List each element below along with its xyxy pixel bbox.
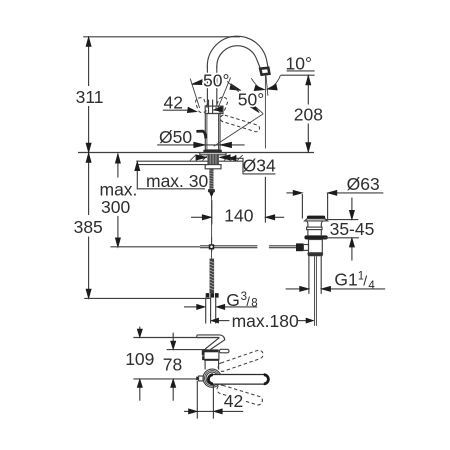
drain plug top [307, 216, 325, 219]
lever rod [208, 100, 210, 114]
rod tip [210, 192, 214, 196]
svg-text:8: 8 [251, 298, 257, 310]
311 top arrowhead [86, 37, 91, 46]
supply connection reference line [110, 246, 199, 248]
top view mid ring [205, 371, 220, 386]
deck hatching left [190, 155, 207, 161]
drain neck lower [308, 230, 321, 236]
top view: axis reference line [133, 378, 196, 380]
lever stroke leg upper [227, 81, 263, 113]
dim 311 vertical line [88, 37, 90, 152]
42 leader line [163, 109, 191, 111]
braided supply hose [210, 259, 215, 293]
top view spout arm left edge [205, 338, 219, 349]
d63 right arrowhead [328, 190, 337, 195]
208 top arrowhead [306, 76, 311, 85]
35-45 bottom arrow [351, 243, 353, 261]
drain tailpipe [309, 256, 321, 294]
drain body [309, 240, 323, 253]
svg-text:max.180: max.180 [232, 311, 299, 331]
42 dim line [197, 410, 213, 412]
drain seal ring [304, 235, 327, 239]
dim 385 vertical line [88, 153, 90, 298]
escutcheon flange [200, 153, 226, 155]
d50 right arrowhead [220, 142, 231, 147]
max30 arrowhead [135, 162, 140, 171]
10deg wedge tilted leg [266, 75, 268, 96]
140 left arrow [191, 216, 207, 218]
svg-text:300: 300 [101, 197, 130, 217]
drain side connector collar [303, 245, 308, 251]
dim 109 bottom arrow [139, 384, 141, 401]
top view: second reference line [167, 349, 207, 351]
50deg right arrowhead [230, 84, 241, 91]
dim line d50 [157, 144, 244, 146]
dim 42 right extension [212, 385, 214, 419]
top view escutcheon rear dark edge [205, 359, 219, 361]
max300 top arrowhead [115, 154, 120, 163]
top view spout bar left cap [197, 335, 220, 338]
deck hatching right [224, 155, 243, 161]
deck bottom line [136, 160, 243, 162]
svg-text:42: 42 [224, 391, 243, 411]
svg-text:/: / [363, 273, 367, 289]
drain flange [305, 219, 328, 221]
rod lower block [208, 189, 215, 192]
42 leader arrowhead [187, 107, 196, 112]
35-45 top arrow [351, 198, 353, 215]
10deg wedge vertical leg / outlet axis extension [264, 75, 266, 149]
dim 140 extension line below deck [264, 177, 266, 223]
spout left inner tube line [216, 67, 218, 107]
svg-text:42: 42 [164, 93, 183, 113]
top view inner circle [206, 372, 218, 384]
spout outlet tube right line [266, 58, 268, 68]
385 bottom arrowhead [86, 289, 91, 298]
max180 left arrow [216, 320, 229, 322]
threaded rod [209, 169, 213, 191]
208 bottom arrowhead [306, 143, 311, 152]
drain side connector black [296, 243, 303, 251]
svg-text:Ø63: Ø63 [347, 174, 380, 194]
top view escutcheon front dark edge [204, 350, 219, 353]
42 right arrow [218, 410, 243, 412]
mounting nut [205, 165, 221, 169]
spout hook detail [196, 131, 205, 138]
dashed lever down-swing [216, 384, 263, 406]
svg-text:10°: 10° [286, 53, 312, 73]
lever stroke leg lower [214, 114, 263, 146]
140 right arrow [270, 216, 284, 218]
axis centerline below rod [211, 197, 213, 237]
svg-text:385: 385 [74, 217, 103, 237]
svg-text:Ø50: Ø50 [159, 127, 192, 147]
d34 arrow left [196, 155, 207, 160]
dashed lever up-swing [217, 349, 264, 372]
svg-text:109: 109 [125, 349, 154, 369]
drain: d63 left extension [301, 194, 303, 219]
35-45 upper extension [325, 219, 359, 221]
top view: upper reference line [133, 337, 219, 339]
dim 42 left extension [196, 381, 198, 419]
dashed lever down position [220, 114, 261, 132]
385 top arrowhead [86, 153, 91, 162]
deck top line [78, 152, 314, 154]
spout arc inner [217, 46, 256, 68]
42 left arrow [184, 410, 193, 412]
d63 dim line [333, 192, 384, 194]
G3/8 dim line left [184, 306, 197, 308]
10deg reference line [281, 74, 315, 76]
d34 arrow right [219, 155, 230, 160]
svg-text:4: 4 [368, 280, 375, 292]
svg-text:50°: 50° [203, 71, 229, 91]
drain neck [308, 223, 321, 227]
svg-text:35-45: 35-45 [330, 219, 375, 239]
drain bottom nut [307, 253, 323, 256]
body inner wall lines [206, 114, 208, 150]
d34 leader arrowhead [229, 156, 236, 161]
rod cross vertical [211, 237, 213, 252]
385 bottom reference line [84, 297, 210, 299]
10deg arc left [251, 78, 261, 89]
d34 bracket underline [235, 158, 276, 174]
top view lever tip oval [219, 349, 229, 353]
50deg left leg [190, 79, 199, 109]
lever stroke arrowhead [250, 104, 259, 113]
dim 208 vertical line [307, 76, 309, 152]
dim max300 vertical line [117, 154, 119, 247]
top view escutcheon [204, 350, 219, 360]
spout outlet tube left line [256, 58, 260, 69]
drain: d63 right extension [327, 193, 329, 219]
hose tails G3/8 [205, 298, 207, 324]
svg-text:140: 140 [224, 206, 253, 226]
dashed knob right position [215, 96, 229, 113]
42 right arrowhead [214, 106, 223, 111]
dim 140 faucet axis extension [211, 200, 213, 224]
G1 1/4 dim line right / underline [326, 288, 385, 290]
spout left outer tube line [206, 67, 208, 107]
lever capsule bold left cap [208, 375, 213, 384]
hose nut [206, 293, 210, 298]
pop-up rod right segment [269, 246, 296, 248]
35-45 lower extension [324, 237, 359, 239]
dim 78 bottom arrow [172, 384, 174, 401]
50deg right leg [218, 77, 231, 108]
drain collar [307, 227, 322, 230]
dashed knob left position [194, 96, 208, 113]
svg-text:208: 208 [294, 105, 323, 125]
spout arc outer [207, 36, 266, 67]
svg-text:G1: G1 [334, 270, 357, 290]
rod cross joint block [209, 244, 214, 249]
threaded shank in deck [207, 154, 219, 165]
dim 109 top arrow [139, 327, 141, 332]
drain flange taper [307, 221, 323, 224]
d63 left arrowhead [293, 190, 302, 195]
svg-text:Ø34: Ø34 [243, 156, 276, 176]
body cylinder [205, 114, 220, 150]
drain inner pipe [315, 256, 317, 326]
escutcheon dark band [203, 150, 221, 153]
10deg underline [287, 70, 315, 72]
50deg left arrowhead [192, 80, 204, 85]
G1 1/4 dim line left [286, 288, 305, 290]
pop-up rod left segment [200, 246, 258, 248]
svg-text:78: 78 [163, 354, 182, 374]
top view lever capsule [208, 375, 269, 385]
max30 bracket [137, 163, 209, 189]
svg-text:max. 30: max. 30 [146, 171, 209, 191]
svg-text:311: 311 [76, 87, 104, 107]
top view supply stub tick [196, 377, 198, 381]
aerator cap [260, 68, 269, 75]
max300 bottom arrowhead [115, 238, 120, 247]
10deg arrowhead right [267, 84, 277, 90]
lever cap [205, 106, 223, 113]
311 bottom arrowhead [86, 143, 91, 152]
svg-text:50°: 50° [238, 90, 264, 110]
top view flange circle [203, 369, 221, 387]
wire top reference line 311 [83, 36, 240, 38]
10deg arrowhead left [254, 86, 264, 91]
top view body section [205, 360, 219, 369]
top view supply stub [199, 376, 204, 381]
dim 78 top arrow [172, 333, 174, 345]
top view spout flat bar top edge [198, 335, 225, 350]
d50 left arrowhead [194, 142, 205, 147]
lever capsule bold right cap [264, 375, 269, 384]
10deg arc right [270, 75, 281, 89]
top view aerator tabs [202, 350, 204, 355]
max180 right arrow [297, 320, 308, 322]
G3/8 dim line right / underline [223, 306, 258, 308]
hose upper link [211, 252, 213, 259]
